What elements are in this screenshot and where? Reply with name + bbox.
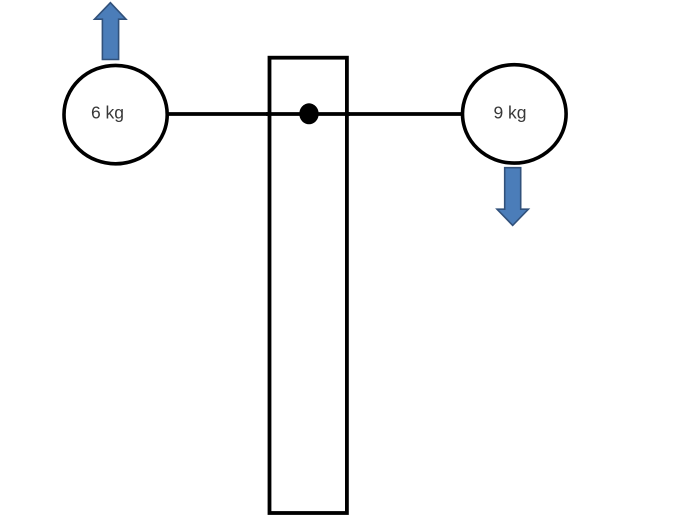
mass circle 9 kg xyxy=(463,65,567,163)
up arrow (force on 6 kg) xyxy=(95,3,127,60)
svg-text:6 kg: 6 kg xyxy=(91,103,124,123)
mass circle 6 kg xyxy=(64,65,167,163)
down arrow (force on 9 kg) xyxy=(497,168,528,226)
wire horizontal rod xyxy=(164,112,465,116)
vertical post (beam) xyxy=(270,58,347,513)
svg-text:9 kg: 9 kg xyxy=(493,102,526,122)
pivot dot xyxy=(299,103,318,124)
wire horizontal rod overlay across post xyxy=(266,112,350,116)
